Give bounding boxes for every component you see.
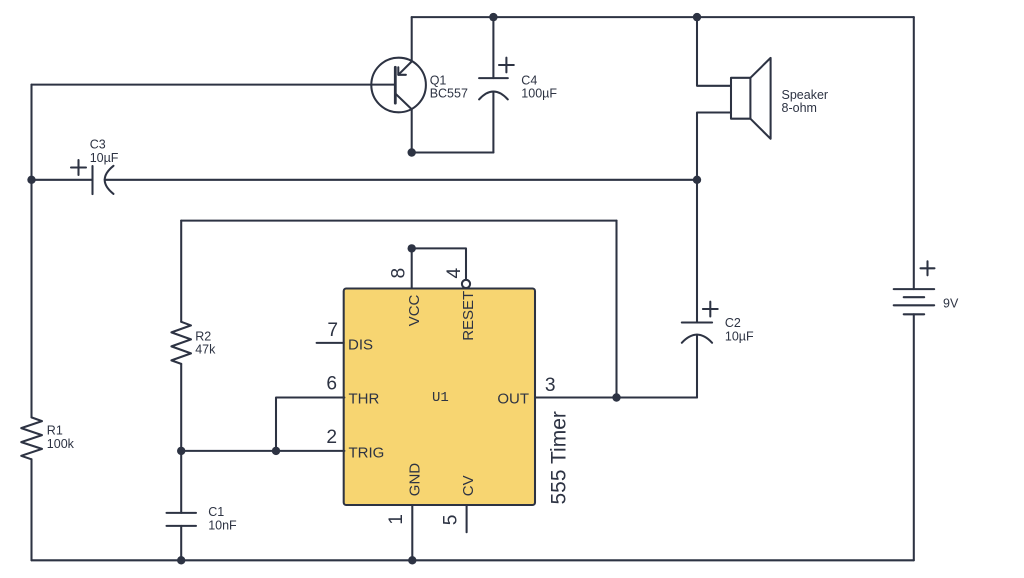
svg-text:1: 1 [386,514,407,525]
svg-text:2: 2 [326,427,337,448]
svg-text:555 Timer: 555 Timer [548,411,571,504]
svg-text:C4: C4 [521,73,537,87]
svg-text:9V: 9V [943,297,959,311]
svg-text:47k: 47k [195,343,216,357]
svg-text:100µF: 100µF [521,87,557,101]
svg-text:U1: U1 [432,390,449,406]
svg-text:8-ohm: 8-ohm [782,101,817,115]
svg-text:4: 4 [444,268,465,279]
svg-text:VCC: VCC [406,294,423,326]
svg-text:TRIG: TRIG [349,445,385,462]
svg-text:Speaker: Speaker [782,88,829,102]
svg-text:5: 5 [441,515,462,526]
svg-text:C3: C3 [90,138,106,152]
svg-text:GND: GND [407,463,424,497]
svg-text:8: 8 [388,268,409,279]
svg-text:OUT: OUT [497,391,529,408]
svg-text:DIS: DIS [348,337,373,354]
svg-text:THR: THR [349,391,380,408]
svg-text:R1: R1 [47,424,63,438]
svg-text:7: 7 [327,320,338,341]
svg-text:BC557: BC557 [430,87,468,101]
svg-text:R2: R2 [195,329,211,343]
svg-text:10µF: 10µF [90,151,119,165]
svg-text:C1: C1 [208,505,224,519]
svg-text:3: 3 [545,375,556,396]
svg-text:Q1: Q1 [430,73,447,87]
svg-text:100k: 100k [47,437,75,451]
svg-text:C2: C2 [725,316,741,330]
svg-text:CV: CV [460,475,477,496]
svg-text:6: 6 [326,374,337,395]
svg-text:10nF: 10nF [208,519,237,533]
svg-text:10µF: 10µF [725,329,754,343]
svg-text:RESET: RESET [460,291,477,341]
